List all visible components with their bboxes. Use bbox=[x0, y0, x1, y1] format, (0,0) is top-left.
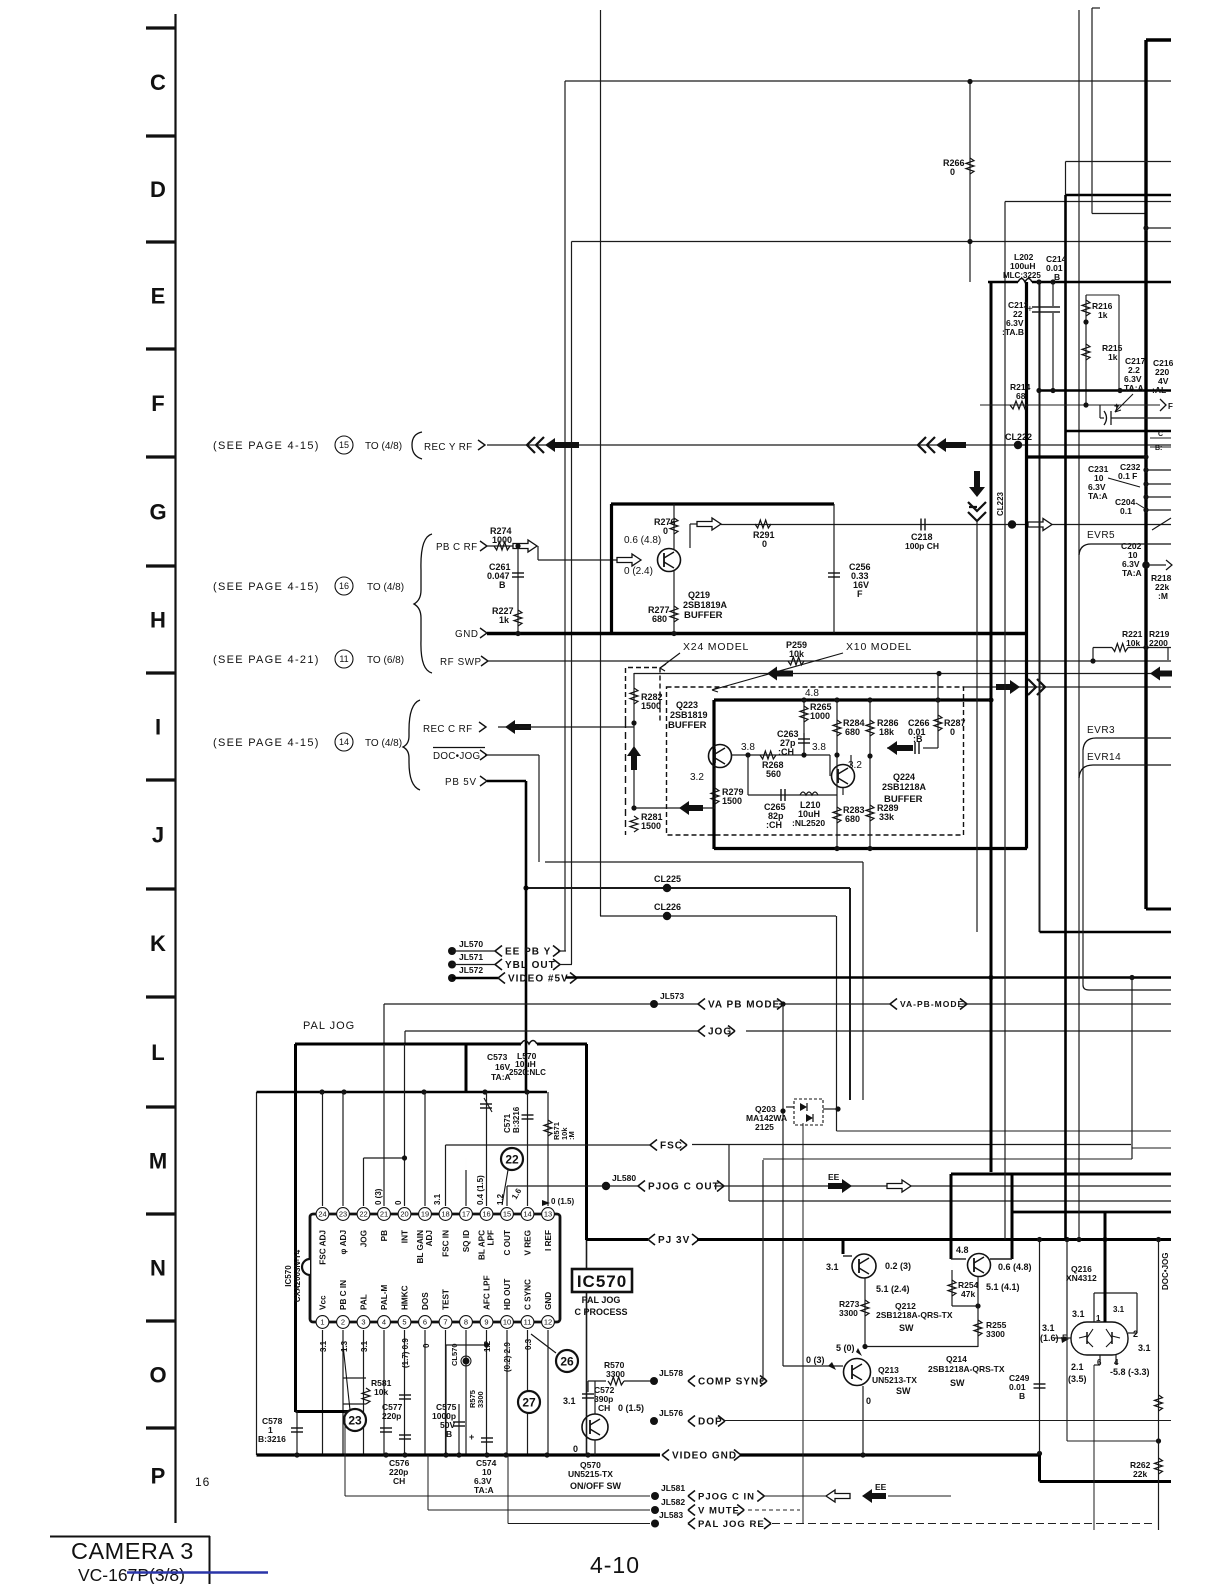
capacitor C232 label bbox=[1118, 462, 1141, 481]
wire: REC C RF line with left arrow bbox=[498, 720, 634, 734]
svg-text:B: B bbox=[446, 1429, 452, 1439]
svg-text:JL573: JL573 bbox=[660, 991, 684, 1001]
wire: CL226 drop x836 bbox=[836, 916, 838, 1131]
resistor R571 bbox=[544, 1092, 576, 1206]
svg-text:CL226: CL226 bbox=[654, 902, 681, 912]
wire: PB 5V thick route bbox=[487, 781, 526, 1092]
wire: line y201 bbox=[1005, 201, 1171, 203]
svg-text:EVR3: EVR3 bbox=[1087, 725, 1115, 736]
svg-text:D: D bbox=[150, 177, 166, 202]
svg-text:HMKC: HMKC bbox=[401, 1285, 410, 1310]
title block: page number 4-10 bbox=[590, 1552, 640, 1578]
svg-text:5.1 (2.4): 5.1 (2.4) bbox=[876, 1284, 910, 1294]
svg-text:PJOG C IN: PJOG C IN bbox=[698, 1491, 755, 1502]
svg-text:JL572: JL572 bbox=[459, 965, 483, 975]
svg-text:3.2: 3.2 bbox=[848, 760, 862, 771]
IC U-IC570 body bbox=[302, 1214, 560, 1322]
net label PJ 3V bbox=[648, 1234, 699, 1246]
svg-text:N: N bbox=[150, 1256, 166, 1281]
svg-text:G: G bbox=[149, 500, 166, 525]
svg-text:3.1: 3.1 bbox=[1072, 1309, 1085, 1319]
svg-text:VA PB MODE: VA PB MODE bbox=[708, 1000, 780, 1011]
wire: bottom GND bus y1455 (thick) bbox=[257, 1452, 661, 1457]
svg-text:GND: GND bbox=[455, 629, 479, 640]
svg-text:1: 1 bbox=[320, 1318, 324, 1327]
svg-text:20: 20 bbox=[400, 1210, 408, 1219]
voltage labels Q223/Q224 bbox=[690, 742, 862, 783]
svg-text:Q223: Q223 bbox=[676, 700, 698, 710]
svg-text:(SEE PAGE 4-15): (SEE PAGE 4-15) bbox=[213, 440, 320, 452]
svg-text:3: 3 bbox=[361, 1318, 365, 1327]
resistor R268 bbox=[731, 751, 830, 779]
wire: vertical x1040 bbox=[1039, 282, 1041, 932]
inductor L202 bbox=[1003, 252, 1041, 280]
wire: y1420 line right part bbox=[940, 1420, 1171, 1422]
svg-text:7: 7 bbox=[443, 1318, 447, 1327]
wire: VA PB MODE continue bbox=[779, 1001, 890, 1006]
label Q212 bbox=[876, 1301, 953, 1333]
wire: GND bus y633 (thick) bbox=[487, 631, 1026, 636]
svg-text:16: 16 bbox=[339, 581, 349, 591]
svg-text:EE: EE bbox=[828, 1172, 840, 1182]
wire: line y213 bbox=[1092, 213, 1146, 215]
svg-text:0.4 (1.5): 0.4 (1.5) bbox=[476, 1175, 485, 1205]
label L570 bbox=[509, 1051, 546, 1077]
resistor R276 bbox=[654, 504, 678, 549]
svg-text:3.1: 3.1 bbox=[319, 1340, 328, 1352]
callout circled 22 bbox=[501, 1148, 523, 1170]
capacitor C202 label bbox=[1121, 541, 1142, 578]
capacitor C263 bbox=[777, 729, 810, 757]
arrow: Q219 out open right bbox=[697, 518, 721, 530]
svg-text:C573: C573 bbox=[487, 1052, 508, 1062]
wire: JOG line left bbox=[405, 1031, 698, 1044]
resistor R279 bbox=[711, 768, 744, 808]
svg-text:4: 4 bbox=[382, 1318, 386, 1327]
svg-text:1.2: 1.2 bbox=[496, 1193, 505, 1205]
box: PAL JOG inner vertical x466 bbox=[465, 1044, 468, 1092]
svg-text:2SB1218A-QRS-TX: 2SB1218A-QRS-TX bbox=[928, 1364, 1005, 1374]
wire: Q216 pin5 stub bbox=[1055, 1337, 1071, 1343]
svg-text:5 (0): 5 (0) bbox=[836, 1343, 855, 1353]
wire: chroma out line y524 (CL223 node) bbox=[721, 522, 1171, 527]
note: SEE PAGE 4-15 (16) TO (4/8) bbox=[213, 577, 404, 595]
resistor R214 label bbox=[1010, 382, 1031, 401]
connector JL583 PAL JOG RE bbox=[651, 1510, 771, 1530]
svg-text:5.1 (4.1): 5.1 (4.1) bbox=[986, 1282, 1020, 1292]
wire: line y431 thick bbox=[1066, 430, 1171, 432]
svg-text:12: 12 bbox=[544, 1318, 552, 1327]
wire: bus y390 (thick) bbox=[1036, 388, 1171, 393]
net label: GND bbox=[455, 628, 487, 640]
svg-text:F: F bbox=[1168, 402, 1173, 411]
svg-text:+: + bbox=[1114, 401, 1119, 411]
wire: bus y241 bbox=[572, 241, 1172, 243]
wire: PJOG C OUT line y1186 with arrows bbox=[714, 1172, 1171, 1193]
wire: EVR5 drop bbox=[1079, 555, 1081, 1240]
svg-text:0: 0 bbox=[950, 727, 955, 737]
pin/voltage labels Q216 bbox=[1040, 1305, 1151, 1384]
chevrons below down arrow bbox=[968, 502, 986, 521]
resistor R581 bbox=[343, 1378, 392, 1404]
capacitor C573 bbox=[480, 1052, 511, 1112]
wire: CL225 line y888 bbox=[523, 874, 850, 892]
svg-text:JL581: JL581 bbox=[661, 1483, 685, 1493]
svg-text:DOC•JOG: DOC•JOG bbox=[1161, 1253, 1170, 1290]
svg-text:1500: 1500 bbox=[641, 821, 661, 831]
svg-text:2: 2 bbox=[1133, 1329, 1138, 1339]
svg-text:TA:A: TA:A bbox=[491, 1072, 511, 1082]
wire: pin8/9 link bbox=[446, 1342, 489, 1455]
svg-text:M: M bbox=[149, 1149, 167, 1174]
svg-text:F: F bbox=[857, 589, 863, 599]
svg-text:19: 19 bbox=[421, 1210, 429, 1219]
capacitor C204 label bbox=[1115, 497, 1144, 516]
net label: DOC*JOG (overlined) bbox=[433, 748, 487, 763]
net EVR14 bbox=[1079, 752, 1171, 778]
voltage annotations near Q219 bbox=[624, 535, 661, 577]
svg-text:F: F bbox=[151, 391, 164, 416]
wire: thick stub y1411 bbox=[296, 1410, 352, 1413]
resistor R266 bbox=[943, 158, 974, 177]
resistor R286 bbox=[866, 700, 899, 851]
wire: x1067 PJ3V to pin5 bbox=[1066, 1240, 1068, 1339]
wire: COMP SYNC up x763 bbox=[761, 1160, 764, 1381]
resistor R273 bbox=[839, 1278, 869, 1347]
svg-text:CH: CH bbox=[598, 1403, 610, 1413]
svg-text:2.1: 2.1 bbox=[1071, 1362, 1084, 1372]
wire: line y242 right bbox=[1079, 241, 1171, 243]
svg-text:2SB1819A: 2SB1819A bbox=[683, 600, 728, 610]
svg-text:(0.2) 2.9: (0.2) 2.9 bbox=[503, 1342, 512, 1372]
svg-text:21: 21 bbox=[380, 1210, 388, 1219]
svg-text:BUFFER: BUFFER bbox=[668, 720, 707, 731]
wire: x783 drop to Q203 and Q213 base bbox=[780, 1004, 785, 1366]
svg-text:Q219: Q219 bbox=[688, 590, 710, 600]
svg-text:X24 MODEL: X24 MODEL bbox=[683, 641, 749, 653]
svg-text:2SB1218A-QRS-TX: 2SB1218A-QRS-TX bbox=[876, 1310, 953, 1320]
net label: REC Y RF bbox=[424, 440, 485, 453]
svg-text:Q224: Q224 bbox=[893, 772, 915, 782]
svg-text:JL578: JL578 bbox=[659, 1368, 683, 1378]
diode array Q203 bbox=[786, 1099, 841, 1125]
test point CL570 bbox=[450, 1343, 471, 1366]
capacitor C256 bbox=[828, 504, 871, 633]
wire: bus y81 bbox=[565, 80, 1171, 82]
resistor R283 bbox=[833, 795, 865, 851]
wire: y1441 link to R262 leg bbox=[1067, 1438, 1161, 1443]
svg-text:4-10: 4-10 bbox=[590, 1552, 640, 1578]
svg-text:C PROCESS: C PROCESS bbox=[574, 1307, 627, 1317]
label Q213 bbox=[872, 1365, 917, 1396]
wire: Q219 collector up bbox=[690, 524, 700, 548]
resistor R265 bbox=[800, 700, 832, 755]
svg-text:+: + bbox=[469, 1432, 474, 1442]
note: SEE PAGE 4-21 (11) TO (6/8) bbox=[213, 650, 404, 668]
svg-text:0.1: 0.1 bbox=[1120, 506, 1132, 516]
net label: PB C RF bbox=[436, 541, 487, 553]
svg-text:CXA2003N-T4: CXA2003N-T4 bbox=[293, 1249, 302, 1302]
svg-text:TA:A: TA:A bbox=[1122, 568, 1142, 578]
svg-text:CAMERA 3: CAMERA 3 bbox=[71, 1538, 194, 1564]
voltage labels below IC570 pins bbox=[319, 1338, 533, 1372]
border: margin tick marks bbox=[146, 28, 176, 1428]
svg-text:B:3216: B:3216 bbox=[512, 1106, 521, 1133]
wires: Q216 pins 4/6 down bbox=[1094, 1355, 1116, 1530]
wire: line y909 thick bbox=[1146, 908, 1171, 911]
wire: vertical x1005 bbox=[1004, 202, 1006, 1240]
svg-text:CL223: CL223 bbox=[996, 491, 1005, 516]
svg-text:CL225: CL225 bbox=[654, 874, 681, 884]
wire: JL582 line y1510 bbox=[428, 1455, 650, 1510]
callout circled 23 bbox=[344, 1409, 366, 1431]
svg-text:C: C bbox=[1158, 431, 1163, 438]
svg-text:2125: 2125 bbox=[755, 1122, 774, 1132]
wire: Q570 emitter/collector bbox=[594, 1381, 596, 1455]
net label VIDEO GND bbox=[662, 1450, 741, 1462]
svg-text:SW: SW bbox=[950, 1378, 965, 1388]
svg-text:B:: B: bbox=[1155, 445, 1162, 452]
leader 23 to pin2 bbox=[343, 1345, 350, 1410]
transistor Q570 bbox=[582, 1414, 608, 1440]
wire: RF SWP line y661 bbox=[488, 660, 1171, 662]
wire: thick drop to Q214 base bbox=[951, 1174, 969, 1259]
capacitor C578 bbox=[258, 1411, 303, 1455]
wire: vertical x1132 bbox=[1131, 978, 1133, 1160]
svg-text:K: K bbox=[150, 931, 166, 956]
wire: line y673 bbox=[634, 671, 1171, 676]
wire: DOP line y1421 bbox=[724, 1420, 1171, 1422]
svg-text::M: :M bbox=[1158, 591, 1168, 601]
border: left margin rule bbox=[174, 14, 176, 1523]
svg-text:INT: INT bbox=[401, 1230, 410, 1243]
svg-text:JOG: JOG bbox=[360, 1230, 369, 1247]
svg-text:CH: CH bbox=[393, 1476, 405, 1486]
svg-text:3.2: 3.2 bbox=[690, 772, 704, 783]
svg-text:P: P bbox=[151, 1464, 166, 1489]
label: X10 MODEL with leader bbox=[712, 641, 912, 692]
svg-text:3.8: 3.8 bbox=[741, 742, 755, 753]
svg-text:C571: C571 bbox=[503, 1113, 512, 1133]
svg-text:0.2 (3): 0.2 (3) bbox=[885, 1261, 911, 1271]
wire: V MUTE dashes bbox=[748, 1509, 800, 1511]
svg-text:220p: 220p bbox=[382, 1411, 401, 1421]
svg-text:V MUTE: V MUTE bbox=[698, 1505, 740, 1516]
svg-text:TA:A: TA:A bbox=[1124, 383, 1144, 393]
svg-text:22: 22 bbox=[505, 1152, 519, 1166]
wire: VIDEO #5V bus y977 (thick) bbox=[566, 975, 1171, 980]
label: X24 MODEL with leader bbox=[660, 641, 749, 671]
svg-text:0: 0 bbox=[663, 526, 668, 536]
svg-text:EVR14: EVR14 bbox=[1087, 752, 1121, 763]
svg-text:VA-PB-MODE: VA-PB-MODE bbox=[900, 999, 964, 1009]
svg-text:PAL: PAL bbox=[360, 1294, 369, 1310]
box: X10 model dashed outline bbox=[667, 687, 964, 835]
svg-text:B:3216: B:3216 bbox=[258, 1434, 286, 1444]
brace: TO 4/8 bottom group bbox=[403, 700, 420, 790]
svg-text:0.3: 0.3 bbox=[524, 1338, 533, 1350]
svg-text:PJ 3V: PJ 3V bbox=[658, 1235, 690, 1246]
resistor R570 bbox=[588, 1360, 654, 1385]
voltage 0(3) at Q213 base bbox=[806, 1355, 836, 1370]
svg-text:9: 9 bbox=[484, 1318, 488, 1327]
svg-text:68: 68 bbox=[1016, 391, 1026, 401]
wire: vertical x1065 thick bbox=[1064, 195, 1067, 1240]
wire: vertical x970 with junctions bbox=[967, 79, 972, 282]
wire: PAL JOG RE right bbox=[772, 1523, 1155, 1525]
svg-text:PB C IN: PB C IN bbox=[339, 1280, 348, 1310]
svg-text:VC-167P(3/8): VC-167P(3/8) bbox=[78, 1565, 185, 1584]
wire: Q213 base feed y1366 bbox=[783, 1365, 843, 1367]
label IC570 CXA2003N-T4 (vertical) bbox=[284, 1249, 302, 1302]
svg-text:8: 8 bbox=[464, 1318, 468, 1327]
svg-text:3.1: 3.1 bbox=[1113, 1305, 1125, 1314]
resistor R284 bbox=[833, 700, 865, 849]
svg-text:18: 18 bbox=[441, 1210, 449, 1219]
box: buffer stage thick border bbox=[714, 697, 1027, 849]
svg-text:680: 680 bbox=[845, 814, 860, 824]
wires: stub lines right of x1146 bbox=[1146, 470, 1171, 510]
capacitor C213 bbox=[1002, 282, 1046, 390]
svg-text:0: 0 bbox=[573, 1444, 578, 1454]
wire: CL226 line y916 bbox=[600, 902, 836, 920]
capacitor C218 bbox=[905, 519, 939, 552]
svg-text:14: 14 bbox=[523, 1210, 531, 1219]
svg-text:680: 680 bbox=[652, 614, 667, 624]
transistor Q219 bbox=[658, 549, 681, 572]
net label JOG bbox=[698, 1026, 735, 1038]
node 4.8 on thick bus bbox=[801, 688, 940, 703]
net EVR3 bbox=[1083, 725, 1171, 750]
arrow: up solid on x634 bbox=[627, 746, 641, 770]
resistor R282 bbox=[630, 688, 663, 711]
svg-text:EVR5: EVR5 bbox=[1087, 530, 1115, 541]
voltage labels Q570 bbox=[563, 1396, 644, 1454]
svg-text:5: 5 bbox=[402, 1318, 406, 1327]
transistor Q223 bbox=[709, 745, 732, 768]
svg-text:VIDEO #5V: VIDEO #5V bbox=[508, 974, 569, 985]
svg-text::CH: :CH bbox=[766, 820, 782, 830]
resistor R255 bbox=[974, 1277, 1007, 1347]
svg-text:0: 0 bbox=[762, 539, 767, 549]
wire: line y687 bbox=[964, 686, 1171, 688]
svg-text:0 (3): 0 (3) bbox=[374, 1188, 383, 1205]
svg-text:4.8: 4.8 bbox=[956, 1245, 969, 1255]
svg-text:6: 6 bbox=[423, 1318, 427, 1327]
capacitor C576 bbox=[380, 1428, 410, 1486]
arrow: y673 left solid mid bbox=[767, 667, 793, 681]
label PAL JOG C PROCESS bbox=[574, 1295, 627, 1317]
svg-text:1000: 1000 bbox=[492, 535, 512, 545]
wire: YBL OUT to x571 bbox=[560, 964, 572, 966]
wire: EE PB Y to x565 bbox=[558, 950, 566, 952]
svg-text:CL570: CL570 bbox=[450, 1343, 459, 1366]
label Q203 MA142WA bbox=[746, 1104, 787, 1132]
arrow: into C266 left solid bbox=[887, 741, 913, 755]
wire: R221 stub down bbox=[1090, 648, 1095, 664]
net label PJOG C OUT bbox=[638, 1181, 724, 1193]
label C214 bbox=[1046, 254, 1067, 282]
svg-text:ADJ: ADJ bbox=[425, 1230, 434, 1246]
voltage 5(0) at Q213 bbox=[836, 1343, 862, 1356]
svg-text:0 (1.5): 0 (1.5) bbox=[618, 1403, 644, 1413]
wire: line y195 thick bbox=[1066, 194, 1172, 197]
svg-text:JL576: JL576 bbox=[659, 1408, 683, 1418]
svg-text:23: 23 bbox=[339, 1210, 347, 1219]
svg-text:XN4312: XN4312 bbox=[1066, 1273, 1097, 1283]
connector JL578 COMP SYNC bbox=[650, 1368, 767, 1388]
wire: vertical x1026 thick bbox=[1025, 282, 1028, 849]
voltage 0 below Q213 bbox=[866, 1396, 871, 1406]
leader 26 to pin11 bbox=[531, 1334, 556, 1353]
resistor P259 bbox=[786, 640, 807, 665]
svg-text:10k: 10k bbox=[789, 649, 805, 659]
svg-text:26: 26 bbox=[560, 1354, 574, 1368]
svg-text:YBL OUT: YBL OUT bbox=[505, 960, 556, 971]
svg-text:-5.8 (-3.3): -5.8 (-3.3) bbox=[1110, 1367, 1150, 1377]
border: margin row letters C-P bbox=[149, 70, 167, 1489]
label box IC570 bbox=[572, 1269, 632, 1292]
wire: vertical x1092 bbox=[1092, 8, 1100, 214]
svg-text:BUFFER: BUFFER bbox=[684, 610, 723, 621]
wire: VA-PB-MODE to right bbox=[962, 1003, 1171, 1005]
wire: PJ3V to Q212 base (thick bend) bbox=[843, 1240, 852, 1257]
svg-text:RF SWP: RF SWP bbox=[440, 657, 482, 668]
wire: FSC to right bbox=[692, 1144, 1131, 1146]
wire: vertical x991 thick bbox=[990, 282, 993, 1172]
svg-text:FSC IN: FSC IN bbox=[442, 1230, 451, 1257]
label Q216 XN4312 bbox=[1066, 1264, 1097, 1283]
resistor R289 bbox=[866, 803, 899, 822]
svg-text:24: 24 bbox=[318, 1210, 326, 1219]
svg-text:14: 14 bbox=[339, 737, 349, 747]
title block: blue underline bbox=[127, 1571, 268, 1573]
resistor R575 label bbox=[468, 1390, 485, 1408]
wire: Q223 emitter to left arrow bbox=[634, 801, 715, 815]
arrow: PB C RF open right bbox=[513, 540, 537, 552]
wire: vertical x565 bbox=[564, 81, 566, 951]
svg-text:UN5213-TX: UN5213-TX bbox=[872, 1375, 917, 1385]
svg-text:3.1: 3.1 bbox=[1138, 1343, 1151, 1353]
wire: PJOG C IN arrows bbox=[763, 1482, 951, 1503]
box: outer thin box left x256 bbox=[256, 1092, 258, 1455]
border: sheet number 16 bbox=[195, 1475, 210, 1489]
svg-text:0: 0 bbox=[394, 1200, 403, 1205]
wire: PJ 3V bus y1239 (thick) bbox=[697, 1237, 1171, 1242]
svg-text:2SB1819: 2SB1819 bbox=[670, 710, 708, 720]
wire: CL225 drop x850 bbox=[849, 888, 851, 1100]
svg-text:PB: PB bbox=[380, 1230, 389, 1241]
net label VA PB MODE bbox=[698, 999, 784, 1011]
leader line right mid bbox=[1152, 518, 1171, 530]
svg-text:13: 13 bbox=[544, 1210, 552, 1219]
arrow: y687 right solid+chevrons bbox=[996, 679, 1045, 695]
voltage labels Q214 bbox=[986, 1262, 1032, 1292]
transistor Q224 bbox=[832, 765, 855, 788]
junction CL222 label bbox=[1005, 432, 1032, 442]
wire: line y932 thick bbox=[1040, 931, 1172, 933]
net label: RF SWP bbox=[440, 656, 488, 668]
callout circled 27 bbox=[518, 1391, 540, 1413]
svg-text:JL582: JL582 bbox=[661, 1497, 685, 1507]
svg-text:1k: 1k bbox=[1108, 352, 1118, 362]
svg-text::M: :M bbox=[567, 1131, 576, 1140]
wire: line y1159 bbox=[763, 1158, 1132, 1160]
wire: FSC drop and y1201 line bbox=[729, 1145, 1171, 1201]
wire: PJ 3V stub from PAL JOG box bbox=[586, 1238, 648, 1241]
svg-text:DOC•JOG: DOC•JOG bbox=[433, 751, 480, 762]
resistor R262 leg x1158 bbox=[1130, 1240, 1163, 1531]
